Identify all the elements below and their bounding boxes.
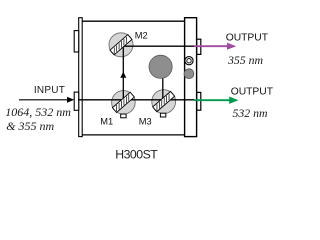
svg-text:OUTPUT: OUTPUT	[226, 33, 269, 44]
mirror M1 tab	[121, 114, 126, 118]
wire: vertical beam M1 to M2	[122, 47, 124, 100]
mirror M2 circle	[109, 33, 133, 57]
wire: M2 output beam	[123, 45, 195, 47]
svg-text:M3: M3	[139, 117, 152, 127]
wire: main horizontal beam	[78, 99, 194, 101]
svg-text:OUTPUT: OUTPUT	[231, 87, 274, 98]
up arrowhead on vertical beam	[120, 72, 126, 78]
svg-text:355 nm: 355 nm	[227, 53, 264, 67]
box top wall	[82, 20, 185, 22]
input port	[74, 92, 79, 110]
mirror M3 element	[153, 91, 175, 111]
mirror M1 element	[112, 92, 134, 112]
svg-text:INPUT: INPUT	[34, 85, 65, 96]
532nm output beam (green)	[194, 99, 230, 101]
output flange 532	[197, 92, 201, 110]
left wall	[79, 18, 83, 137]
355nm output beam (magenta)	[194, 45, 228, 47]
mirror M3 circle	[152, 90, 176, 114]
svg-text:H300ST: H300ST	[115, 148, 158, 162]
mirror M3 tab	[160, 113, 165, 117]
ring on right column	[185, 57, 193, 65]
gray unit circle	[149, 55, 172, 78]
mirror M2 element	[110, 35, 132, 55]
right column	[185, 18, 197, 137]
output flange 355	[197, 39, 201, 54]
svg-text:M2: M2	[135, 31, 148, 41]
box bottom wall	[82, 134, 185, 136]
svg-text:1064, 532 nm: 1064, 532 nm	[5, 105, 71, 119]
input arrow	[19, 99, 68, 101]
svg-text:M1: M1	[100, 117, 113, 127]
svg-text:532 nm: 532 nm	[233, 106, 269, 120]
wire: stem from gray unit to M3	[162, 66, 164, 102]
svg-text:& 355 nm: & 355 nm	[6, 119, 54, 133]
upper-left flange	[74, 31, 79, 52]
small gray circle on right column	[184, 69, 194, 79]
mirror M1 circle	[112, 91, 136, 115]
